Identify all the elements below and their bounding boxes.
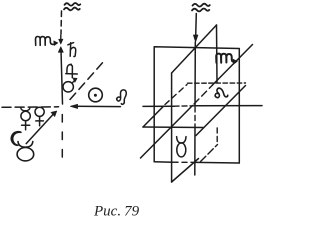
svg-text:Рис.79: Рис.79 [93, 204, 140, 220]
